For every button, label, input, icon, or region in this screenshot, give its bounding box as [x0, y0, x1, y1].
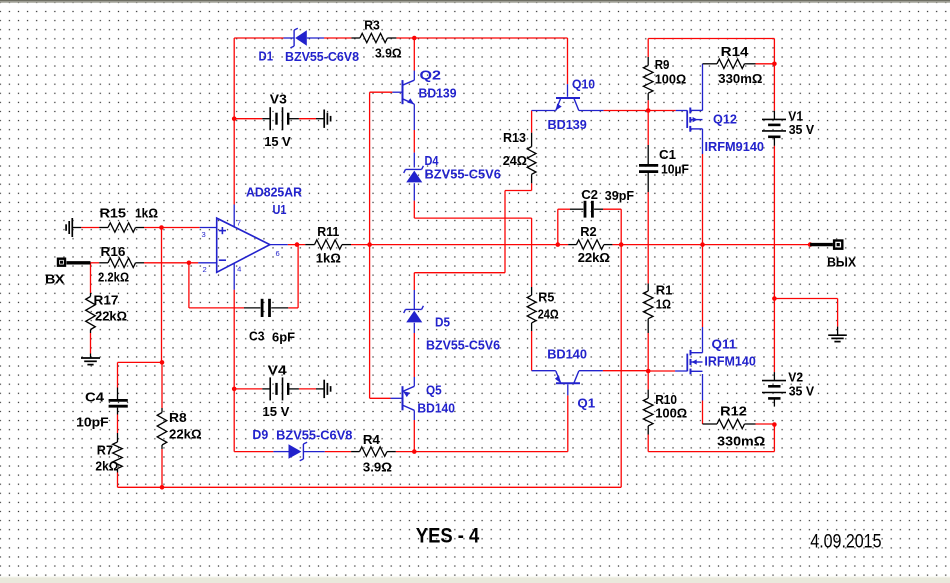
svg-text:C3: C3	[249, 328, 265, 343]
wire C1 bottom to R1	[647, 192, 649, 284]
transistor Q5 BD140	[402, 386, 404, 410]
junction V4 plus	[232, 387, 237, 392]
svg-text:D1: D1	[259, 49, 274, 64]
svg-text:R12: R12	[720, 404, 747, 419]
svg-text:Q5: Q5	[426, 382, 442, 397]
svg-text:R9: R9	[655, 57, 670, 72]
junction R4 Q5 node	[412, 449, 417, 454]
junction Q11 gate node	[646, 369, 651, 374]
svg-text:IRFM140: IRFM140	[704, 353, 755, 368]
svg-text:2kΩ: 2kΩ	[95, 459, 118, 474]
wire R10 bottom corner	[647, 435, 649, 452]
wire V4 row	[234, 388, 262, 390]
junction minus input node	[187, 261, 192, 266]
svg-text:BZV55-C5V6: BZV55-C5V6	[425, 166, 501, 181]
wire Q11 source to R12	[702, 374, 704, 401]
svg-text:35 V: 35 V	[789, 384, 815, 399]
window top border	[0, 0, 950, 1]
resistor R9	[647, 57, 649, 66]
wire Q11 gate node to R10	[647, 371, 649, 390]
svg-text:1Ω: 1Ω	[656, 297, 671, 312]
wire R7 bottom to bottom rail	[117, 473, 119, 488]
wire C2 right leg	[620, 209, 622, 244]
svg-text:4: 4	[237, 264, 241, 273]
svg-text:R5: R5	[538, 290, 554, 305]
capacitor C4	[117, 388, 119, 400]
wire Q1 base drop	[567, 395, 569, 451]
svg-text:C1: C1	[659, 147, 676, 162]
wire mid rail R2 to MOSFET node	[612, 244, 702, 246]
wire Q2 emitter to D4	[413, 104, 415, 130]
junction V3 plus	[232, 116, 237, 121]
svg-text:R8: R8	[169, 410, 187, 425]
junction V2 bottom node	[772, 422, 777, 427]
svg-text:R13: R13	[503, 130, 526, 145]
svg-text:24Ω: 24Ω	[503, 153, 527, 168]
wire C4 column upper	[117, 362, 119, 387]
svg-text:22kΩ: 22kΩ	[169, 427, 202, 442]
wire Q5 base row	[370, 397, 391, 399]
svg-text:10pF: 10pF	[76, 414, 108, 429]
svg-text:AD825AR: AD825AR	[246, 184, 303, 199]
svg-text:BZV55-C5V6: BZV55-C5V6	[426, 337, 500, 352]
resistor R11	[305, 244, 314, 246]
wire top right rail	[648, 38, 774, 40]
wire Q10 base drop	[567, 38, 569, 84]
wire R1 bottom to Q11 gate node	[647, 333, 649, 371]
wire top rail left segment	[234, 37, 283, 39]
svg-text:6: 6	[276, 249, 280, 258]
battery V4	[262, 388, 270, 390]
wire Q12 gate stub	[648, 110, 676, 112]
svg-text:100Ω: 100Ω	[655, 405, 687, 420]
svg-text:BD140: BD140	[547, 346, 587, 361]
svg-text:BD139: BD139	[548, 117, 587, 132]
wire R12 right to V2 node	[756, 423, 775, 425]
wire minus row R16 to op-amp	[91, 262, 100, 264]
wire op-amp pin4 stub	[233, 263, 235, 290]
svg-text:1kΩ: 1kΩ	[135, 205, 158, 220]
wire R14 left leg blue	[702, 64, 704, 111]
resistor R7	[117, 433, 119, 442]
svg-text:BZV55-C6V8: BZV55-C6V8	[276, 427, 352, 442]
svg-text:R2: R2	[580, 224, 596, 239]
wire C2 row	[558, 208, 570, 210]
svg-text:Q12: Q12	[713, 111, 737, 126]
svg-text:R1: R1	[656, 283, 673, 298]
svg-text:22kΩ: 22kΩ	[95, 309, 127, 324]
svg-text:V3: V3	[270, 92, 287, 107]
wire R11 to mid rail	[351, 244, 370, 246]
wire jog column down	[504, 191, 506, 273]
resistor R5	[531, 287, 533, 295]
resistor R17	[90, 293, 92, 297]
battery V2	[773, 372, 775, 381]
svg-text:BD139: BD139	[419, 86, 457, 101]
battery V1	[773, 111, 775, 120]
wire R13 bottom jog	[531, 183, 533, 190]
wire Q12 source to output rail	[702, 129, 704, 154]
zener D5	[406, 311, 422, 323]
wire op-amp pin7 stub	[233, 205, 235, 227]
wire R8 column upper	[161, 362, 163, 408]
wire mid rail to output terminal	[703, 244, 811, 246]
svg-text:100Ω: 100Ω	[655, 71, 687, 86]
svg-text:D5: D5	[435, 314, 450, 329]
wire Q10 emitter row	[532, 110, 556, 112]
wire bottom rail	[118, 486, 622, 488]
capacitor C3	[244, 307, 260, 309]
wire C2 left leg	[557, 209, 559, 244]
junction supply midpoint	[772, 296, 777, 301]
wire Q1 emitter row	[532, 370, 556, 372]
svg-text:6pF: 6pF	[272, 329, 295, 344]
wire R5 column upper	[531, 218, 533, 287]
wire D4 corner to R5 column	[414, 217, 531, 219]
junction mid rail Q2 base column	[367, 242, 372, 247]
resistor R10	[647, 390, 649, 399]
wire Q2 base row	[370, 91, 393, 93]
svg-text:IRFM9140: IRFM9140	[705, 139, 765, 154]
zener D9	[273, 451, 288, 453]
svg-text:3.9Ω: 3.9Ω	[375, 45, 402, 60]
op-amp U1 AD825AR	[217, 218, 270, 272]
junction plus input node	[159, 225, 164, 230]
svg-text:Q11: Q11	[712, 336, 737, 351]
svg-text:R11: R11	[317, 224, 339, 239]
wire Q11 gate stub	[648, 370, 675, 372]
svg-text:330mΩ: 330mΩ	[717, 433, 765, 448]
wire R9 top	[647, 39, 649, 58]
battery V3	[262, 118, 270, 120]
wire D5 cathode stub	[413, 273, 415, 290]
wire Q2 collector stub	[413, 38, 415, 71]
wire input plus row R15 to op-amp	[81, 227, 99, 229]
input terminal BX	[58, 259, 65, 266]
svg-text:V4: V4	[268, 363, 288, 378]
junction Q12 gate node	[646, 108, 651, 113]
junction bottom rail R8	[160, 485, 165, 490]
mosfet Q11 IRFM140	[686, 354, 688, 372]
wire pin4 column down to D9 row	[233, 290, 235, 452]
svg-text:R7: R7	[97, 443, 113, 458]
svg-text:7: 7	[237, 218, 241, 227]
svg-text:2.2kΩ: 2.2kΩ	[98, 270, 129, 285]
svg-text:V2: V2	[788, 370, 803, 385]
zener D4	[406, 171, 422, 183]
wire R8 bottom to bottom rail	[161, 449, 163, 487]
svg-text:R4: R4	[363, 432, 381, 447]
junction mid rail C2 right	[619, 242, 624, 247]
wire R13 top from Q10 emitter	[531, 111, 533, 133]
wire output rail to Q11 drain	[702, 245, 704, 327]
wire D4 anode down to corner	[413, 183, 415, 200]
output terminal BYX	[810, 243, 833, 246]
capacitor C2	[570, 208, 583, 210]
resistor R3	[351, 37, 360, 39]
ground below R17	[90, 354, 92, 359]
svg-text:24Ω: 24Ω	[538, 307, 559, 322]
resistor R14	[703, 63, 718, 65]
wire Q10 collector row to Q12 gate	[579, 110, 604, 112]
wire Q5 collector down to R4 node	[413, 410, 415, 420]
svg-text:330mΩ: 330mΩ	[718, 71, 762, 86]
svg-text:BD140: BD140	[417, 400, 455, 415]
zener D1	[284, 37, 295, 39]
svg-text:4.09.2015: 4.09.2015	[810, 531, 881, 553]
capacitor C1	[647, 145, 649, 164]
junction mid rail C2 left	[556, 242, 561, 247]
junction mid rail MOSFET output node	[700, 242, 705, 247]
svg-text:R15: R15	[100, 205, 127, 220]
wire bootstrap column R15 junction down to C4 row	[161, 228, 163, 363]
wire gate node to C1	[647, 111, 649, 146]
svg-text:V1: V1	[788, 108, 803, 123]
resistor R2	[568, 244, 576, 246]
wire Q1 collector row to Q11 gate	[579, 370, 603, 372]
svg-text:R17: R17	[94, 292, 119, 307]
svg-text:2: 2	[203, 265, 207, 274]
wire feedback row to C3	[189, 307, 244, 309]
wire R5 bottom to Q1 emitter corner	[531, 331, 533, 371]
wire jog to D5 cathode	[414, 272, 505, 274]
junction C4 row	[160, 360, 165, 365]
svg-text:3.9Ω: 3.9Ω	[363, 460, 392, 475]
svg-text:22kΩ: 22kΩ	[578, 250, 610, 265]
svg-text:C2: C2	[581, 187, 598, 202]
svg-text:39pF: 39pF	[605, 188, 634, 203]
wire Q2 base column lower to Q5	[369, 245, 371, 399]
ground V3	[316, 118, 324, 120]
wire C3 right to pin6 column	[288, 307, 298, 309]
svg-text:D9: D9	[252, 427, 268, 442]
svg-text:C4: C4	[85, 389, 105, 404]
svg-text:ВХ: ВХ	[45, 272, 65, 287]
svg-text:ВЫХ: ВЫХ	[827, 255, 856, 270]
ground right	[837, 327, 839, 336]
wire feedback pin2 down	[188, 263, 190, 308]
resistor R15	[99, 227, 108, 229]
wire V2 node drop	[773, 425, 775, 452]
svg-text:35 V: 35 V	[789, 122, 815, 137]
junction output terminal node	[808, 242, 813, 247]
ground input left	[72, 227, 81, 229]
svg-text:1kΩ: 1kΩ	[316, 251, 341, 266]
svg-text:3: 3	[202, 230, 206, 239]
resistor R16	[99, 262, 108, 264]
wire R17 column	[90, 263, 92, 293]
transistor Q1 BD140	[556, 382, 580, 384]
wire op-amp supply column V3	[233, 38, 235, 205]
svg-text:R14: R14	[721, 44, 750, 59]
wire R14 right to V1 rail	[756, 63, 775, 65]
wire C4 to R7	[117, 415, 119, 434]
resistor R8	[161, 408, 163, 413]
ground V4	[316, 388, 324, 390]
wire R17 bottom to ground	[90, 333, 92, 354]
wire R9 bottom to gate node	[647, 100, 649, 110]
svg-text:R16: R16	[101, 244, 126, 259]
junction top rail / Q2 collector	[412, 36, 417, 41]
resistor R13	[531, 133, 533, 147]
wire Q2 base column to mid rail	[369, 92, 371, 244]
wire op-amp output pin6	[270, 244, 288, 246]
svg-text:U1: U1	[273, 202, 287, 217]
svg-text:BZV55-C6V8: BZV55-C6V8	[285, 49, 359, 64]
wire V1 column top	[773, 39, 775, 64]
svg-text:15 V: 15 V	[264, 134, 291, 149]
svg-text:YES - 4: YES - 4	[416, 525, 480, 548]
svg-text:Q1: Q1	[577, 395, 595, 410]
svg-text:R3: R3	[364, 18, 380, 33]
svg-text:Q2: Q2	[420, 68, 442, 83]
transistor Q10 BD139	[556, 97, 580, 99]
junction V1 top node	[772, 62, 777, 67]
svg-text:10µF: 10µF	[661, 161, 689, 176]
resistor R4	[351, 451, 359, 453]
mosfet Q12 IRFM9140	[686, 110, 688, 128]
resistor R1	[647, 284, 649, 292]
wire D9 R4 row	[234, 451, 273, 453]
window bottom strip	[0, 577, 950, 583]
wire ground branch right	[774, 298, 837, 300]
transistor Q2 BD139	[402, 80, 404, 104]
junction output pin6 node	[295, 242, 300, 247]
wire C4 row horizontal	[118, 361, 163, 363]
wire V1 bottom to mid ground node	[773, 146, 775, 299]
wire R10 row to V2 node	[648, 451, 774, 453]
wire mid column C2 junction to bottom rail	[620, 245, 622, 488]
svg-text:15 V: 15 V	[262, 404, 289, 419]
wire D5 anode to Q5 emitter	[413, 323, 415, 333]
wire V3 row	[234, 118, 262, 120]
wire mid rail R11 to R2	[370, 244, 569, 246]
resistor R12	[703, 423, 718, 425]
wire pin6 column feedback	[297, 245, 299, 308]
wire midpoint to V2	[773, 299, 775, 373]
svg-text:Q10: Q10	[572, 77, 595, 92]
